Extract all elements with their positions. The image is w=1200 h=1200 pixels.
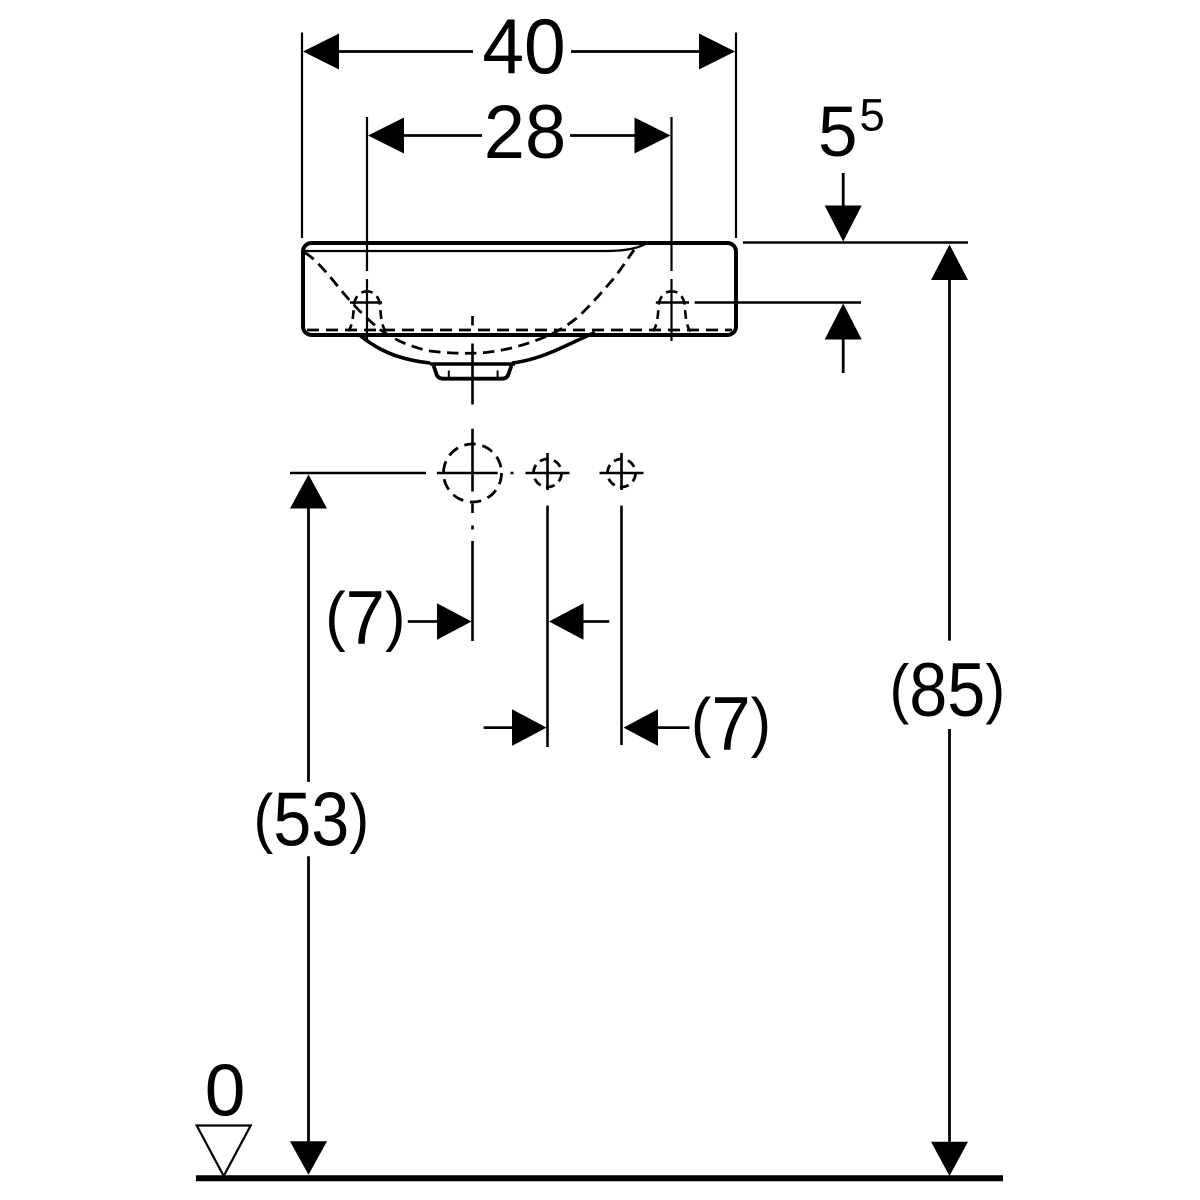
svg-text:28: 28	[484, 89, 566, 174]
svg-text:(53): (53)	[253, 778, 369, 862]
svg-text:5: 5	[860, 90, 885, 141]
svg-text:(7): (7)	[691, 681, 771, 766]
svg-text:(7): (7)	[325, 575, 405, 660]
svg-text:5: 5	[818, 93, 858, 172]
svg-text:0: 0	[205, 1051, 246, 1132]
svg-text:40: 40	[482, 4, 565, 91]
svg-text:(85): (85)	[889, 649, 1005, 733]
